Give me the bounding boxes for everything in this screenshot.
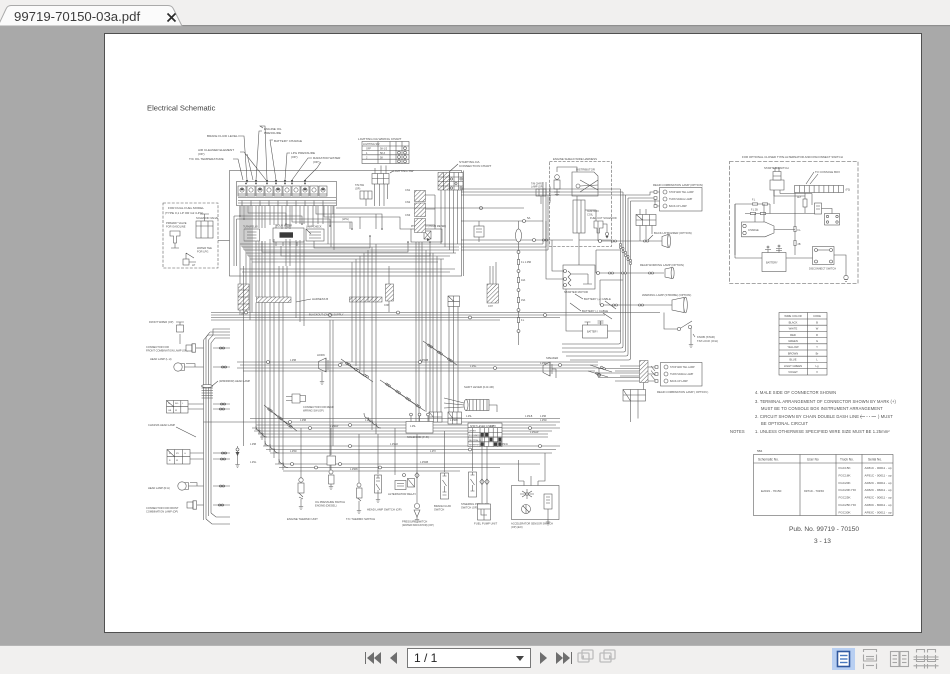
svg-text:LIGHTING DA WIRING CHART: LIGHTING DA WIRING CHART <box>358 137 402 141</box>
pressure switch water indicator <box>402 434 434 527</box>
extra ground symbols <box>329 484 333 490</box>
svg-text:PRESSURE: PRESSURE <box>264 131 281 135</box>
wires from starting chart down <box>441 190 458 253</box>
svg-text:G: G <box>184 453 186 455</box>
svg-text:NOTES: NOTES <box>730 429 745 434</box>
svg-text:REAR COMBINATION LAMP ( OPTION: REAR COMBINATION LAMP ( OPTION ) <box>657 390 708 394</box>
svg-text:1.25RY: 1.25RY <box>540 363 548 365</box>
svg-text:T/M LOCK (O/H): T/M LOCK (O/H) <box>697 339 718 343</box>
fuel pump unit <box>474 446 497 526</box>
svg-text:99719 - 70150: 99719 - 70150 <box>804 489 824 493</box>
svg-text:FORWARD F: FORWARD F <box>469 434 482 437</box>
extra wire code labels <box>250 416 546 471</box>
svg-text:1.25G: 1.25G <box>470 366 476 368</box>
alt relay small parts <box>804 193 806 213</box>
svg-text:G: G <box>816 339 818 343</box>
svg-text:COIL: COIL <box>587 213 594 217</box>
svg-text:SPEAKER: SPEAKER <box>546 356 558 360</box>
solenoid valve for LPG <box>196 221 213 238</box>
solenoid F-R <box>406 413 433 439</box>
first page icon <box>365 652 366 664</box>
svg-text:Pub. No. 99719 - 70150: Pub. No. 99719 - 70150 <box>789 526 859 533</box>
wrap marks on bundle <box>202 385 214 399</box>
next view icon (disabled) <box>600 650 615 662</box>
horizontal bus C y422-434 <box>204 422 561 434</box>
harness head lamp label <box>148 423 196 437</box>
svg-text:FGC18K: FGC18K <box>839 473 852 477</box>
svg-text:Truck No.: Truck No. <box>840 458 854 462</box>
svg-text:CHARGE: CHARGE <box>748 229 759 232</box>
svg-text:LAMP (OP): LAMP (OP) <box>531 186 543 189</box>
svg-text:FRONT COMBINATION LAMP (OP): FRONT COMBINATION LAMP (OP) <box>146 349 188 353</box>
svg-text:PRESSURE SWITCH: PRESSURE SWITCH <box>402 520 427 524</box>
svg-text:WATER TEE: WATER TEE <box>197 246 212 250</box>
svg-text:CONNECTOR FOR REAR: CONNECTOR FOR REAR <box>303 405 334 409</box>
svg-text:COMBINATION LAMP (OP): COMBINATION LAMP (OP) <box>146 510 178 514</box>
svg-text:1.25RW: 1.25RW <box>330 426 339 428</box>
front harness connector grid 1 <box>167 401 204 414</box>
svg-text:B: B <box>816 320 818 324</box>
svg-text:AF83C - 00011 - up: AF83C - 00011 - up <box>865 510 892 514</box>
svg-text:99719-70150-03a.pdf: 99719-70150-03a.pdf <box>14 9 140 24</box>
svg-text:4. MALE SIDE OF CONNECTOR SHO: 4. MALE SIDE OF CONNECTOR SHOWN <box>755 390 836 395</box>
console interior routing detail <box>234 206 430 266</box>
shift lever connector <box>444 385 497 412</box>
alternator relay <box>388 428 416 496</box>
extra verticals <box>426 250 430 412</box>
svg-text:SOLENOID VALVE: SOLENOID VALVE <box>196 216 218 220</box>
svg-text:HEAD LAMP (R.H): HEAD LAMP (R.H) <box>148 486 170 490</box>
bottom toolbar <box>0 645 950 674</box>
knob (T/M lock) switch <box>664 313 718 348</box>
svg-text:BACK-UP LAMP: BACK-UP LAMP <box>670 380 688 383</box>
connector grid near engine box <box>636 209 656 241</box>
diagonal connector stairs <box>264 341 457 431</box>
ignition coil <box>573 200 585 233</box>
svg-text:(LPG): (LPG) <box>342 217 349 221</box>
svg-text:ENGINE (DIESEL): ENGINE (DIESEL) <box>315 504 337 508</box>
svg-text:GB: GB <box>168 410 172 412</box>
svg-text:1.25W: 1.25W <box>290 451 297 453</box>
svg-text:SHIFT LEVER (F-R-4R): SHIFT LEVER (F-R-4R) <box>464 385 494 389</box>
svg-text:LAMP CHECK: LAMP CHECK <box>306 226 322 229</box>
svg-text:(TYPE 0,1 LP OR G2 /LPG): (TYPE 0,1 LP OR G2 /LPG) <box>165 211 203 215</box>
svg-text:IGNITION: IGNITION <box>587 209 599 213</box>
svg-text:LP: LP <box>192 263 195 267</box>
svg-text:E2019 - 70150: E2019 - 70150 <box>761 489 782 493</box>
connector for rear wiring <box>286 394 334 413</box>
svg-text:YELLOW: YELLOW <box>787 345 799 349</box>
svg-text:BATTERY: BATTERY <box>766 261 778 265</box>
facing view icon <box>891 652 909 667</box>
svg-text:MUST BE TO CONSOLE BOX IN: MUST BE TO CONSOLE BOX INSTRUMENT ARRANG… <box>761 406 883 411</box>
prev view icon (disabled) <box>578 650 593 662</box>
active tab <box>0 6 182 27</box>
fuse chain x518 <box>516 221 532 345</box>
svg-text:CHASSIS HEAD LAMP: CHASSIS HEAD LAMP <box>148 423 175 427</box>
serial table <box>754 449 894 516</box>
svg-text:1.25LB: 1.25LB <box>525 416 533 418</box>
pdf page <box>105 34 922 633</box>
svg-text:NEUTRAL N: NEUTRAL N <box>469 439 481 442</box>
engine thermo unit <box>287 434 318 521</box>
svg-text:Electrical Schematic: Electrical Schematic <box>147 104 216 113</box>
svg-text:FOR LPG: FOR LPG <box>197 250 208 254</box>
svg-text:2. CIRCUIT SHOWN BY CHAIN: 2. CIRCUIT SHOWN BY CHAIN DOUBLE DASH LI… <box>755 414 862 419</box>
continuous view icon <box>864 650 877 670</box>
svg-text:BLACKOUT (OVER) SUPPLY: BLACKOUT (OVER) SUPPLY <box>309 313 344 317</box>
svg-text:FUEL PUMP UNIT: FUEL PUMP UNIT <box>474 522 497 526</box>
svg-text:DISCONNECT SWITCH: DISCONNECT SWITCH <box>809 268 836 271</box>
dual fuel model box <box>163 203 218 268</box>
svg-text:W: W <box>816 327 819 331</box>
oil pressure switch engine <box>315 428 345 508</box>
diamond connectors on sensor drops <box>415 473 489 485</box>
svg-text:(W/MIRROR) HEAD LAMP: (W/MIRROR) HEAD LAMP <box>219 379 250 383</box>
connector for front combination lamp (top) <box>146 344 204 353</box>
svg-text:CN2: CN2 <box>405 200 411 204</box>
svg-text:AF91C - 00011 - up: AF91C - 00011 - up <box>865 473 892 477</box>
lighting da wiring chart <box>358 137 409 164</box>
svg-text:REAR WORKING LAMP (OPTION): REAR WORKING LAMP (OPTION) <box>640 263 684 267</box>
svg-text:REVERSE R: REVERSE R <box>469 445 482 447</box>
svg-text:5A: 5A <box>527 216 531 220</box>
funnel connector below bundle <box>562 340 655 401</box>
rear combination lamp box (lower) <box>588 363 708 395</box>
speaker symbol <box>543 356 558 378</box>
svg-text:Schematic No.: Schematic No. <box>758 458 779 462</box>
svg-text:STOP AND TAIL LAMP: STOP AND TAIL LAMP <box>670 366 695 369</box>
corner joints left bundle to buses <box>256 413 381 468</box>
svg-text:VIOLET: VIOLET <box>788 370 798 374</box>
svg-text:1.25W: 1.25W <box>540 420 547 422</box>
harness B label <box>296 297 328 302</box>
svg-text:LIGHT GREEN: LIGHT GREEN <box>784 364 802 368</box>
console double right edge <box>463 171 465 277</box>
extra verticals mid <box>330 320 333 470</box>
svg-text:BACK-UP LAMP: BACK-UP LAMP <box>669 205 687 208</box>
svg-text:1.25L: 1.25L <box>410 426 416 428</box>
svg-text:BE OPTIONAL CIRCUIT: BE OPTIONAL CIRCUIT <box>761 421 809 426</box>
svg-text:CN1: CN1 <box>405 188 411 192</box>
svg-text:(OP): (OP) <box>291 155 298 159</box>
svg-text:1. UNLESS OTHERWISE SPECIFIED: 1. UNLESS OTHERWISE SPECIFIED WIRE SIZE … <box>755 429 890 434</box>
svg-text:) MUST: ) MUST <box>878 414 893 419</box>
svg-text:SWITCH: SWITCH <box>434 508 444 512</box>
svg-text:Y: Y <box>816 345 818 349</box>
wire dual fuel to console <box>218 240 230 242</box>
svg-text:BATTERY (+) CABLE: BATTERY (+) CABLE <box>584 297 611 301</box>
svg-text:1 / 1: 1 / 1 <box>414 651 438 665</box>
horizontal pin bar 2 <box>350 297 383 302</box>
svg-text:LIGHTING SW: LIGHTING SW <box>363 143 380 146</box>
starter motor <box>546 221 595 294</box>
steering pressure switch <box>461 428 490 510</box>
vertical connector block left <box>238 284 249 310</box>
svg-text:BLACK: BLACK <box>789 320 798 324</box>
svg-text:2R: 2R <box>340 363 343 365</box>
vertical wire with fuses <box>794 193 796 256</box>
svg-text:CONNECTION CHART: CONNECTION CHART <box>459 164 491 168</box>
svg-text:FOR OPTIONAL CLOSED TYPE ALTE: FOR OPTIONAL CLOSED TYPE ALTERNATOR AND … <box>742 155 843 159</box>
svg-text:CN3: CN3 <box>405 213 411 217</box>
page combo box <box>408 649 531 668</box>
head lamp switch <box>367 434 402 512</box>
svg-text:1.25Y: 1.25Y <box>490 426 496 428</box>
svg-text:(OP): (OP) <box>355 188 360 191</box>
svg-text:GREEN: GREEN <box>788 339 798 343</box>
svg-text:BATTERY: BATTERY <box>587 331 598 334</box>
T/M switch connector <box>355 184 372 206</box>
gauge arrows <box>246 180 306 183</box>
svg-text:CN7: CN7 <box>488 305 493 308</box>
svg-text:RED: RED <box>790 333 796 337</box>
front harness connector grid 2 <box>167 450 204 465</box>
fuses row 2 <box>745 213 795 215</box>
svg-text:HORN: HORN <box>317 353 325 357</box>
svg-text:15A: 15A <box>521 299 526 302</box>
svg-text:ENGINE THERMO UNIT: ENGINE THERMO UNIT <box>287 517 318 521</box>
svg-text:CODE: CODE <box>813 314 821 318</box>
svg-text:1.25GR: 1.25GR <box>390 444 398 446</box>
svg-text:1.25RB: 1.25RB <box>350 469 358 471</box>
wire CN5 to lower bus <box>243 318 245 446</box>
svg-text:(OP) (EO): (OP) (EO) <box>511 525 523 529</box>
svg-text:BLUE: BLUE <box>789 358 796 362</box>
svg-text:WIRING SW (OP): WIRING SW (OP) <box>303 409 324 413</box>
hour meter <box>273 224 304 246</box>
svg-text:V: V <box>816 370 818 374</box>
horn <box>317 353 328 385</box>
svg-text:3 - 13: 3 - 13 <box>814 538 831 545</box>
disconnect switch <box>813 247 835 265</box>
svg-text:1.25B: 1.25B <box>290 360 296 362</box>
svg-text:HARNESS B: HARNESS B <box>312 297 328 301</box>
svg-text:1.25Y: 1.25Y <box>430 451 436 453</box>
svg-text:TURN SIGNAL LAMP: TURN SIGNAL LAMP <box>670 373 694 376</box>
svg-text:T/C THERMO SWITCH: T/C THERMO SWITCH <box>346 517 375 521</box>
svg-text:10A: 10A <box>521 279 526 282</box>
wire color table <box>779 313 827 376</box>
shift lever chart <box>468 423 502 447</box>
next page icon <box>540 652 547 664</box>
svg-text:(OP): (OP) <box>198 152 205 156</box>
svg-text:FOR DUAL FUEL MODEL: FOR DUAL FUEL MODEL <box>168 206 204 210</box>
svg-text:FGC20K: FGC20K <box>839 481 852 485</box>
svg-text:F.L 2B: F.L 2B <box>751 209 758 212</box>
junction dots <box>239 183 431 243</box>
lower-left diode + ground <box>235 446 239 468</box>
svg-text:1.25B: 1.25B <box>250 444 256 446</box>
console box outline <box>230 171 462 277</box>
svg-text:Lg: Lg <box>816 364 819 368</box>
svg-text:BROWN: BROWN <box>788 351 798 355</box>
svg-text:BATTERY CHARGE: BATTERY CHARGE <box>274 139 302 143</box>
horizontal bus D y446-458 <box>263 446 560 453</box>
tab bar <box>0 0 950 26</box>
w/mirror head lamp label <box>212 379 250 386</box>
svg-text:3. TERMINAL ARRANGEMENT OF: 3. TERMINAL ARRANGEMENT OF CONNECTOR SHO… <box>755 399 897 404</box>
svg-text:(OP): (OP) <box>313 160 320 164</box>
svg-text:FOR GASOLINE: FOR GASOLINE <box>166 225 186 229</box>
horizontal pin bar 1 <box>257 297 292 303</box>
right risers <box>631 401 639 422</box>
svg-text:CN6: CN6 <box>384 304 389 307</box>
svg-text:1.25WB: 1.25WB <box>420 462 429 464</box>
svg-text:TO CONSOLE BOX: TO CONSOLE BOX <box>815 170 840 174</box>
T/M check connector near console right <box>531 183 546 205</box>
single page view (active, blue) <box>832 648 855 670</box>
svg-text:BRAKE FLUID: BRAKE FLUID <box>434 504 451 508</box>
svg-text:BACK-UP BUZZER (OPTION): BACK-UP BUZZER (OPTION) <box>654 231 692 235</box>
horizontal bus E y464-473 <box>275 464 540 471</box>
extra stair <box>345 362 351 367</box>
svg-text:1.25GW: 1.25GW <box>530 432 539 434</box>
svg-text:FRONT WIPER (OP): FRONT WIPER (OP) <box>149 320 173 324</box>
warning lamp strobe (option) <box>600 280 691 313</box>
svg-text:LIGHTING SW: LIGHTING SW <box>393 169 414 173</box>
bundle verticals below console <box>256 242 458 470</box>
svg-text:FGC25K HO: FGC25K HO <box>839 503 857 507</box>
interior bus lines <box>336 207 461 209</box>
svg-text:58-1/2: 58-1/2 <box>380 148 388 151</box>
starting da connection chart label <box>449 160 491 172</box>
internal wires <box>577 196 612 240</box>
svg-text:AF82C - 00011 - up: AF82C - 00011 - up <box>865 496 892 500</box>
svg-text:(F3): (F3) <box>846 189 851 192</box>
svg-text:HEAD LAMP (L.H): HEAD LAMP (L.H) <box>150 357 172 361</box>
gauge pictogram ticks <box>241 188 325 190</box>
svg-text:T/C OIL TEMPERATURE: T/C OIL TEMPERATURE <box>189 157 224 161</box>
extra bus lines <box>250 419 560 438</box>
battery in inset <box>762 253 786 272</box>
small relay right of console <box>474 226 484 237</box>
starting connection chart grid <box>438 173 463 191</box>
svg-text:Serial No.: Serial No. <box>868 458 882 462</box>
svg-text:1.25RB: 1.25RB <box>450 420 458 422</box>
accelerator sensor switch box <box>511 453 559 529</box>
lighting switch connector <box>372 166 414 207</box>
leader lines from labels to gauges <box>233 126 321 180</box>
svg-text:58-3: 58-3 <box>380 152 386 155</box>
alternator body <box>742 222 775 237</box>
rear combination lamp box (top) <box>626 183 703 211</box>
svg-text:WHITE: WHITE <box>789 327 798 331</box>
prev page icon <box>390 652 397 664</box>
vertical connector block mid <box>386 284 394 301</box>
horizontal bus A y312-320 <box>211 313 660 321</box>
instrument cluster inner box <box>237 182 337 206</box>
svg-text:FGC15K: FGC15K <box>839 466 852 470</box>
svg-text:RG: RG <box>175 403 179 405</box>
svg-text:1.25WB: 1.25WB <box>420 360 429 362</box>
svg-text:G: G <box>168 403 170 405</box>
svg-text:5B4: 5B4 <box>757 449 763 453</box>
svg-text:(WATER INDICATOR) (OP): (WATER INDICATOR) (OP) <box>402 523 434 527</box>
svg-text:F.L 1.25R: F.L 1.25R <box>521 261 531 264</box>
instrument gauges row <box>238 186 336 206</box>
svg-text:WIRE COLOR: WIRE COLOR <box>784 314 801 318</box>
engine shield harness box <box>548 157 617 247</box>
photo relay (hour meter) <box>411 225 446 242</box>
svg-text:AF82C - 96011 - up: AF82C - 96011 - up <box>865 488 892 492</box>
svg-text:User No: User No <box>807 458 819 462</box>
svg-text:FGC20K HO: FGC20K HO <box>839 488 857 492</box>
inset: optional alternator & disconnect switch <box>730 155 859 284</box>
svg-text:TURN SIGNAL LAMP: TURN SIGNAL LAMP <box>669 198 693 201</box>
wire bundle to rear lamps (5 wires) <box>461 182 631 340</box>
inline connectors on bundle <box>620 243 632 264</box>
svg-text:ALTERNATOR RELAY: ALTERNATOR RELAY <box>388 492 416 496</box>
wires down to sensors from buses <box>301 428 487 450</box>
small grids near solenoid <box>429 412 442 422</box>
relay TURN RELAY <box>243 226 260 242</box>
svg-text:1.25L: 1.25L <box>466 416 472 418</box>
svg-text:SWITCH (OP): SWITCH (OP) <box>461 506 478 510</box>
svg-text:1.25B: 1.25B <box>300 420 306 422</box>
T/C thermo switch <box>346 446 375 521</box>
svg-text:ENGINE SHIELD WIRE HARNESS: ENGINE SHIELD WIRE HARNESS <box>553 157 597 161</box>
last page icon <box>556 652 563 664</box>
svg-text:OFF: OFF <box>366 148 371 151</box>
tab close X <box>168 14 176 22</box>
svg-text:R: R <box>816 333 818 337</box>
connector for front combination lamp (bottom) <box>146 501 204 514</box>
svg-text:AF82C - 00011 - up: AF82C - 00011 - up <box>865 481 892 485</box>
svg-text:STOP AND TAIL LAMP: STOP AND TAIL LAMP <box>669 191 694 194</box>
svg-text:FGC25K: FGC25K <box>839 496 852 500</box>
svg-text:CONNECTOR FOR: CONNECTOR FOR <box>146 345 169 349</box>
svg-text:AF81C - 00011 - up: AF81C - 00011 - up <box>865 466 892 470</box>
svg-text:OIL PRESSURE SWITCH: OIL PRESSURE SWITCH <box>315 500 345 504</box>
svg-text:1.25LW: 1.25LW <box>500 444 509 446</box>
inline connectors on left stubs <box>219 347 224 349</box>
left harness bundle 4 wires <box>204 329 231 524</box>
svg-text:AF80C - 80011 - up: AF80C - 80011 - up <box>865 503 892 507</box>
rear working lamp (option) <box>596 250 684 279</box>
small connector top-left of column <box>149 320 184 344</box>
svg-text:REAR COMBINATION LAMP (OPTION): REAR COMBINATION LAMP (OPTION) <box>653 183 703 187</box>
svg-text:DISTRIBUTOR: DISTRIBUTOR <box>576 168 595 172</box>
brake fluid switch <box>434 431 451 512</box>
battery (main) <box>566 289 621 338</box>
wire labels on buses <box>290 360 548 434</box>
facing continuous icon <box>914 650 939 669</box>
wire from engine box to console <box>461 239 573 241</box>
connector stack group x415 <box>405 188 435 233</box>
relay box <box>825 214 840 226</box>
svg-text:CONNECTOR FOR FRONT: CONNECTOR FOR FRONT <box>146 506 179 510</box>
svg-text:2B: 2B <box>798 243 801 246</box>
svg-text:STARTER MOTOR: STARTER MOTOR <box>564 290 588 294</box>
vertical connector block right <box>487 284 499 303</box>
svg-text:FUEL CUT SOLENOID: FUEL CUT SOLENOID <box>590 216 617 220</box>
head lamp RH <box>148 482 204 490</box>
back-up buzzer (option) <box>598 221 692 248</box>
svg-text:BRAKE FLUID LEVEL: BRAKE FLUID LEVEL <box>207 134 238 138</box>
battery cable labels <box>570 294 616 319</box>
svg-text:ALT: ALT <box>797 196 802 199</box>
svg-text:Br: Br <box>816 351 819 355</box>
svg-text:HEAD LAMP SWITCH (OP): HEAD LAMP SWITCH (OP) <box>367 508 402 512</box>
2x2 grid connector <box>448 296 460 307</box>
svg-text:FGC30K: FGC30K <box>839 510 852 514</box>
relay C <box>306 226 324 242</box>
fuses row 1 <box>748 203 770 205</box>
svg-text:1.25R: 1.25R <box>540 416 546 418</box>
console bottom routing fan <box>240 206 543 320</box>
svg-text:1.25G: 1.25G <box>250 462 256 464</box>
